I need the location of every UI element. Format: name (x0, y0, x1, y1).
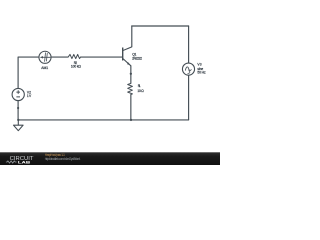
wire Q1 collector to top (131, 26, 133, 47)
svg-text:R1: R1 (138, 84, 141, 88)
voltage source V3 (182, 63, 194, 75)
voltage source V2 (12, 88, 24, 100)
ground (14, 120, 24, 131)
footer bar (0, 152, 220, 165)
wire right rail top (to V3) (188, 26, 190, 63)
wire V2 top to corner to ammeter (18, 57, 39, 88)
svg-text:100 kΩ: 100 kΩ (71, 64, 82, 68)
svg-text:50 Hz: 50 Hz (197, 71, 206, 75)
transistor Q1 (123, 47, 132, 66)
resistor R2 (68, 54, 81, 58)
svg-text:2N2222: 2N2222 (132, 57, 142, 61)
logo resistor zigzag (6, 161, 17, 163)
ammeter AM1 (39, 51, 51, 63)
svg-text:LAB: LAB (18, 159, 31, 164)
svg-text:10 Ω: 10 Ω (137, 89, 144, 93)
wire R2 to Q1 base (81, 56, 123, 58)
resistor R1 (128, 83, 133, 94)
wire V3 bottom to bottom rail (188, 75, 190, 120)
wire V2 bottom to ground junction (17, 101, 19, 120)
node bottom rail junction dot (130, 119, 132, 121)
node ground junction dot (17, 119, 19, 121)
node V2 bottom dot (17, 107, 19, 109)
wire AM1 to R2 (51, 56, 68, 58)
svg-text:http://circuitlab.com/c4xr43yd: http://circuitlab.com/c4xr43yd8kke4 (45, 157, 81, 161)
svg-text:AM1: AM1 (41, 66, 48, 70)
wire top rail (132, 25, 189, 27)
wire Q1 emitter to R1 (130, 66, 132, 84)
wire R1 bottom lead (130, 95, 132, 120)
wire bottom rail (18, 119, 188, 121)
node emitter junction dot (130, 73, 132, 75)
